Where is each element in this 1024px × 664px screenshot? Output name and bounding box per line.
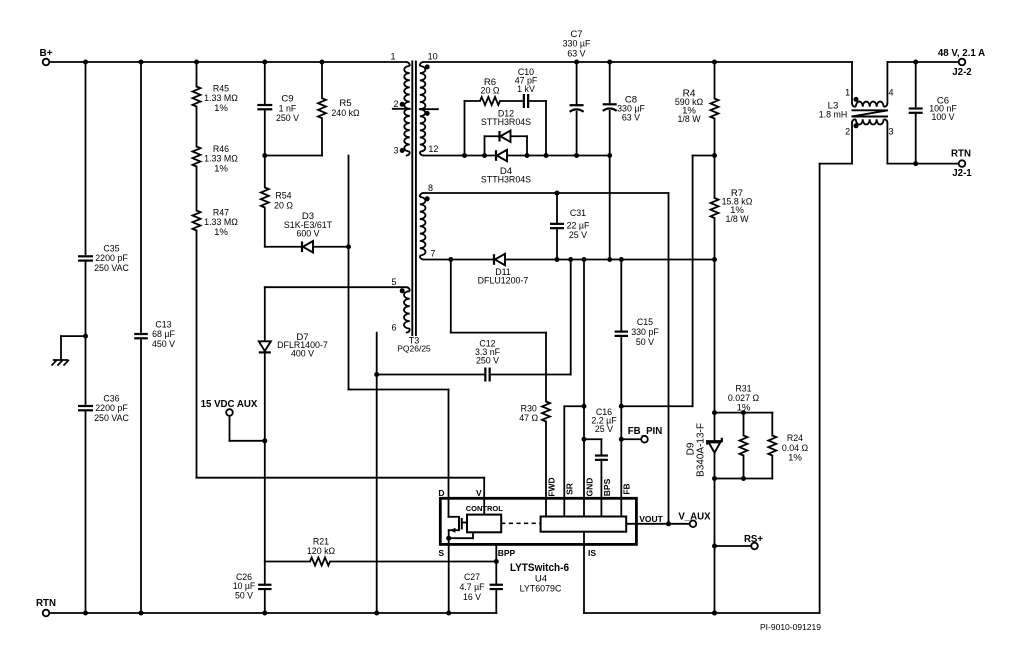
svg-text:VOUT: VOUT [639, 514, 663, 524]
svg-text:3: 3 [393, 146, 398, 156]
svg-text:RTN: RTN [36, 598, 56, 609]
svg-text:47 Ω: 47 Ω [519, 413, 538, 424]
svg-text:2: 2 [845, 127, 850, 137]
svg-text:3: 3 [888, 127, 893, 137]
svg-text:120 kΩ: 120 kΩ [307, 546, 335, 557]
svg-text:J2-1: J2-1 [952, 168, 972, 179]
svg-text:25 V: 25 V [569, 230, 588, 241]
svg-text:1: 1 [390, 52, 395, 62]
svg-text:63 V: 63 V [567, 48, 586, 59]
svg-text:FB_PIN: FB_PIN [628, 426, 663, 437]
svg-text:RS+: RS+ [744, 534, 763, 545]
svg-text:16 V: 16 V [463, 592, 482, 603]
svg-text:LYTSwitch-6: LYTSwitch-6 [510, 562, 569, 574]
svg-text:B340A-13-F: B340A-13-F [696, 423, 707, 477]
svg-text:100 V: 100 V [931, 112, 955, 123]
svg-text:S: S [438, 548, 444, 558]
svg-text:BPP: BPP [498, 548, 516, 558]
svg-text:FWD: FWD [546, 477, 556, 496]
svg-text:12: 12 [428, 144, 438, 154]
svg-text:1%: 1% [214, 103, 228, 114]
svg-text:STTH3R04S: STTH3R04S [481, 117, 531, 128]
svg-text:J2-2: J2-2 [952, 67, 972, 78]
svg-text:7: 7 [430, 249, 435, 259]
svg-text:BPS: BPS [602, 478, 612, 496]
svg-text:600 V: 600 V [296, 228, 320, 239]
svg-text:V: V [476, 488, 482, 498]
svg-text:250 V: 250 V [476, 356, 500, 367]
svg-text:1.8 mH: 1.8 mH [819, 109, 848, 120]
svg-text:SR: SR [565, 483, 575, 495]
svg-text:400 V: 400 V [291, 348, 315, 359]
svg-text:1%: 1% [788, 453, 802, 464]
svg-text:450 V: 450 V [152, 339, 176, 350]
svg-text:GND: GND [584, 478, 594, 497]
svg-text:FB: FB [622, 483, 632, 494]
svg-text:STTH3R04S: STTH3R04S [481, 174, 531, 185]
svg-text:50 V: 50 V [235, 590, 254, 601]
svg-text:PQ26/25: PQ26/25 [397, 344, 431, 354]
svg-text:15 VDC AUX: 15 VDC AUX [201, 399, 258, 410]
svg-text:1/8 W: 1/8 W [725, 214, 749, 225]
svg-text:1/8 W: 1/8 W [677, 114, 701, 125]
svg-text:50 V: 50 V [636, 337, 655, 348]
svg-text:250 V: 250 V [276, 113, 300, 124]
svg-text:2: 2 [393, 99, 398, 109]
svg-text:1 kV: 1 kV [517, 84, 535, 95]
svg-text:48 V, 2.1 A: 48 V, 2.1 A [938, 48, 985, 59]
svg-text:10: 10 [428, 51, 438, 61]
svg-text:1%: 1% [737, 403, 751, 414]
svg-text:250 VAC: 250 VAC [94, 413, 129, 424]
svg-text:25 V: 25 V [595, 424, 614, 435]
svg-text:C31: C31 [570, 208, 586, 219]
svg-text:240 kΩ: 240 kΩ [331, 108, 359, 119]
svg-text:250 VAC: 250 VAC [94, 263, 129, 274]
svg-text:6: 6 [391, 323, 396, 333]
svg-text:IS: IS [588, 548, 596, 558]
svg-text:V_AUX: V_AUX [678, 512, 711, 523]
svg-text:20 Ω: 20 Ω [274, 200, 293, 211]
svg-text:B+: B+ [39, 48, 52, 59]
svg-text:63 V: 63 V [622, 113, 641, 124]
svg-text:1%: 1% [214, 163, 228, 174]
svg-text:LYT6079C: LYT6079C [520, 583, 562, 594]
svg-text:4: 4 [888, 87, 893, 97]
svg-text:DFLU1200-7: DFLU1200-7 [478, 276, 529, 287]
svg-text:CONTROL: CONTROL [466, 504, 503, 513]
svg-text:8: 8 [428, 183, 433, 193]
svg-text:D: D [438, 488, 444, 498]
svg-text:RTN: RTN [951, 149, 971, 160]
svg-text:20 Ω: 20 Ω [481, 85, 500, 96]
svg-text:1: 1 [845, 87, 850, 97]
svg-text:1%: 1% [214, 227, 228, 238]
svg-text:PI-9010-091219: PI-9010-091219 [760, 622, 821, 632]
svg-text:5: 5 [391, 277, 396, 287]
